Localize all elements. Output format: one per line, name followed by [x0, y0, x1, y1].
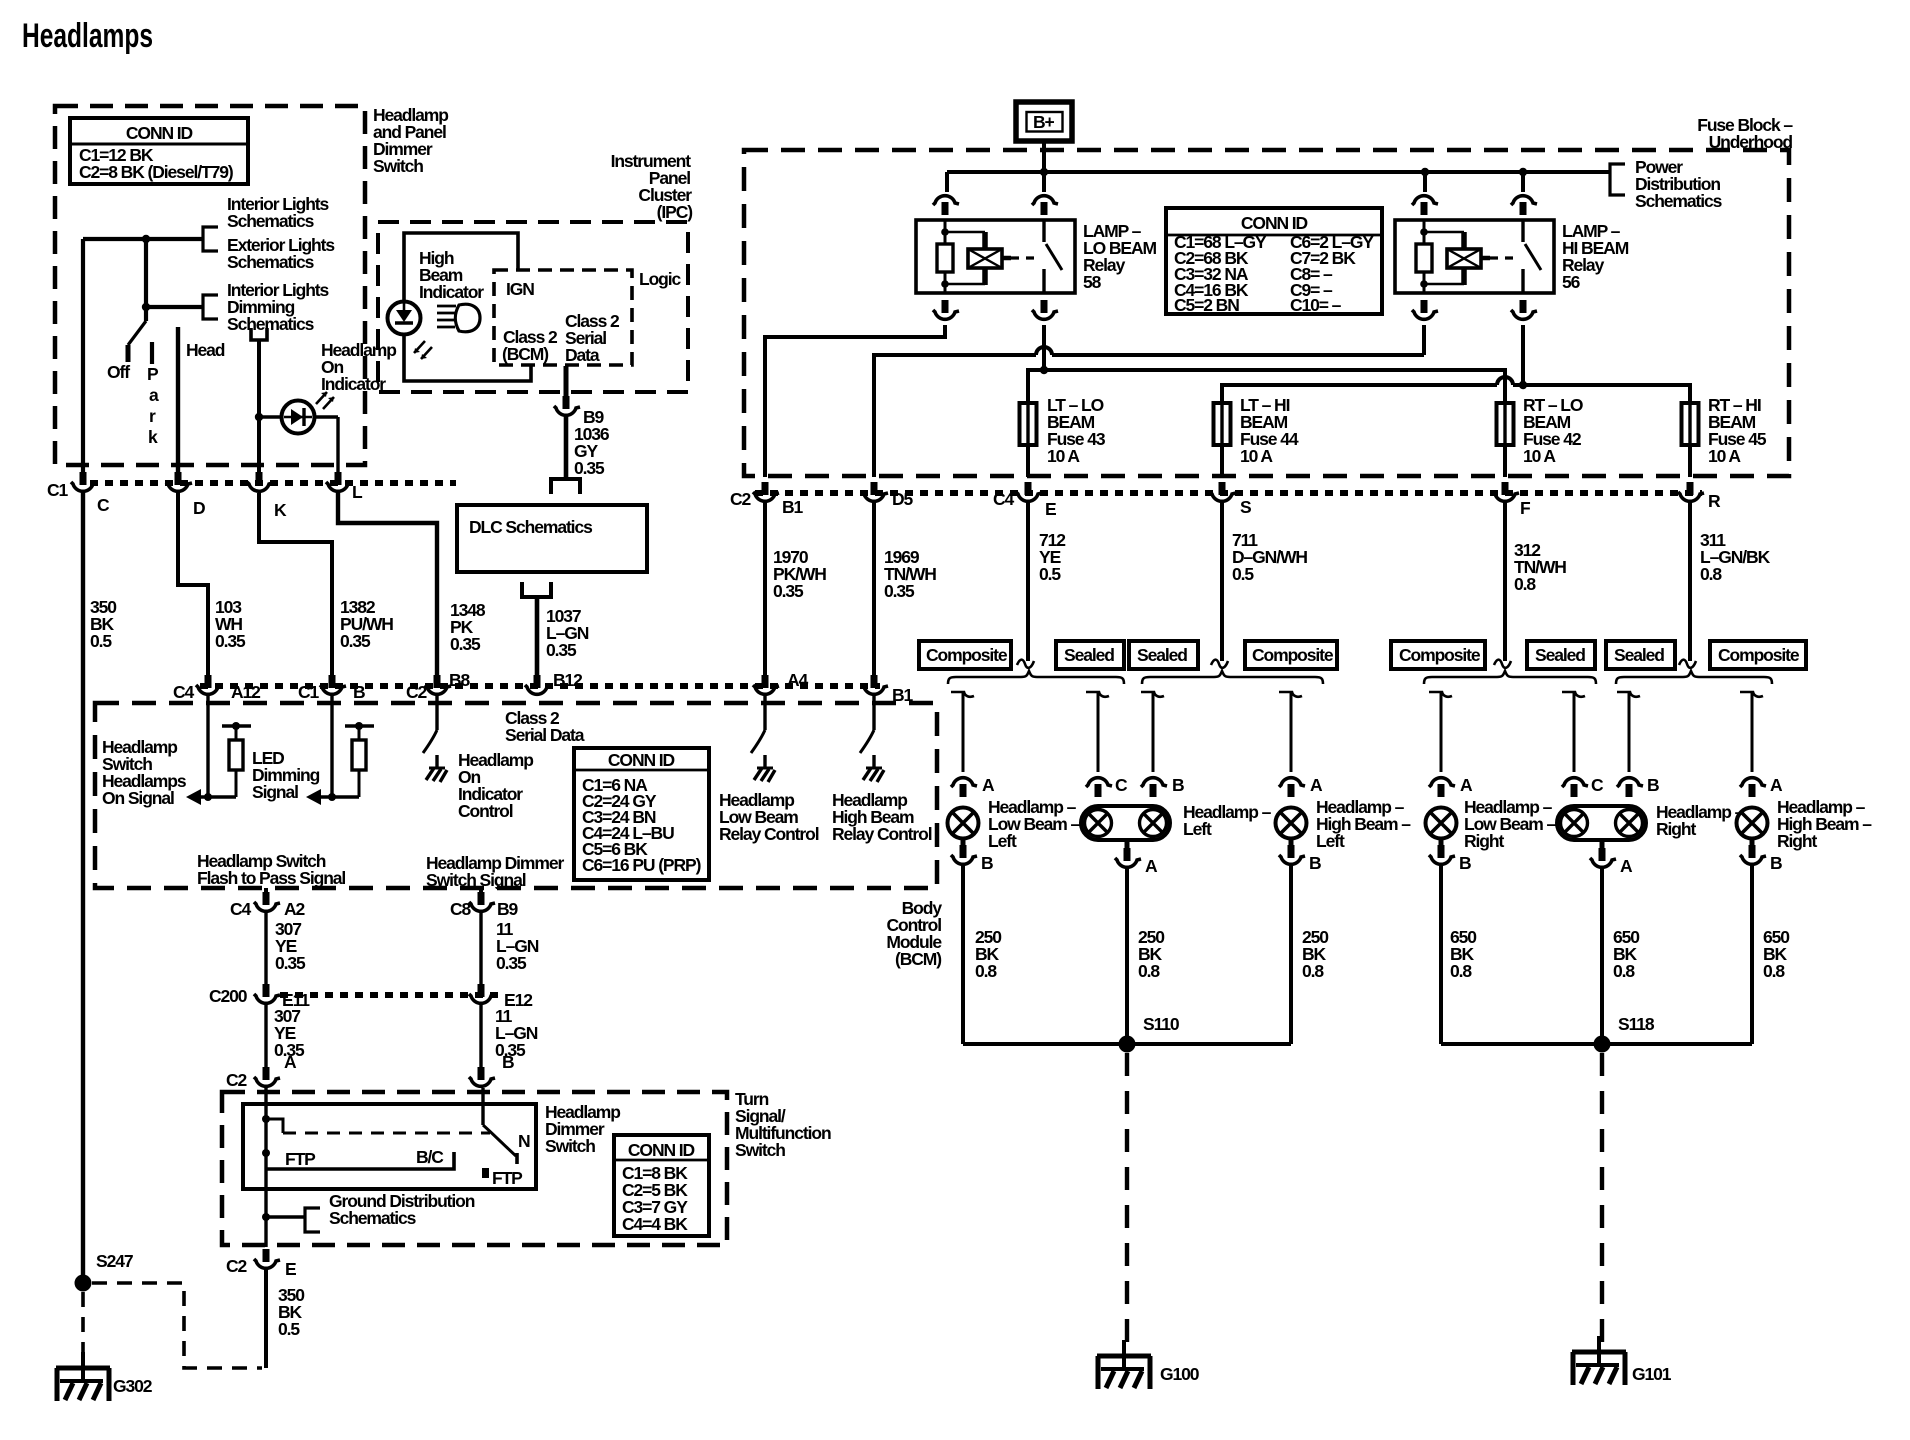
wire to dimming bracket: [146, 239, 202, 307]
node HI coil junction: [1421, 168, 1429, 176]
dotted connector row 3: [200, 683, 880, 689]
svg-text:E: E: [1045, 499, 1056, 519]
wire LED to L terminal: [314, 417, 338, 474]
svg-text:B/C: B/C: [416, 1147, 444, 1167]
dotted connector row C200: [280, 992, 500, 998]
wire 103 WH from D: [178, 493, 208, 681]
FTP contact: [482, 1168, 489, 1178]
svg-text:B9: B9: [497, 899, 519, 919]
reference bracket power distribution: [1610, 164, 1625, 195]
wire 250 BK right: [1289, 866, 1293, 1044]
svg-text:S: S: [1240, 497, 1251, 517]
svg-text:Switch: Switch: [735, 1140, 785, 1160]
svg-text:C2=8 BK (Diesel/T79): C2=8 BK (Diesel/T79): [79, 162, 233, 182]
connector caps into HI relay: [1412, 196, 1438, 215]
svg-text:10 A: 10 A: [1708, 446, 1741, 466]
fuse 43 LT-LO BEAM: [1020, 403, 1037, 445]
option box sealed L2: [1056, 641, 1124, 669]
dimmer switch blade: [483, 1125, 516, 1156]
wire switch feed horizontal: [83, 239, 202, 483]
label LED dimming signal: [252, 748, 320, 802]
dotted connector row C1: [90, 480, 456, 486]
FTP rail: [266, 1152, 454, 1169]
brace left high: [1142, 671, 1323, 684]
lamp feed wire A2 left: [1279, 692, 1302, 697]
svg-text:0.8: 0.8: [1613, 961, 1635, 981]
label headlamp dimmer switch signal: [426, 853, 564, 890]
N contact: [515, 1153, 519, 1164]
connector B (headlamp right): [1617, 778, 1643, 797]
lamp headlamp right (dual filament): [1557, 806, 1646, 840]
svg-text:Left: Left: [988, 831, 1017, 851]
svg-text:DLC Schematics: DLC Schematics: [469, 517, 593, 537]
fuse 42 RT-LO BEAM: [1497, 403, 1514, 445]
svg-text:C: C: [1115, 775, 1128, 795]
svg-text:A: A: [982, 775, 995, 795]
fork out of DLC: [522, 582, 551, 597]
svg-text:C4: C4: [230, 899, 252, 919]
label ground distribution schematics: [329, 1191, 475, 1228]
svg-text:C4: C4: [173, 682, 195, 702]
wire 250 BK left: [961, 866, 965, 1044]
park contact tick: [150, 342, 154, 364]
svg-text:S110: S110: [1143, 1014, 1180, 1034]
svg-text:Schematics: Schematics: [227, 314, 315, 334]
connector C2/A (turn signal): [254, 1067, 280, 1086]
svg-text:B: B: [981, 853, 993, 873]
svg-text:A4: A4: [787, 670, 809, 690]
svg-text:Indicator: Indicator: [419, 282, 484, 302]
svg-text:C4: C4: [993, 489, 1015, 509]
svg-text:C10= –: C10= –: [1290, 295, 1342, 315]
wire B9 stub from logic: [564, 366, 569, 402]
node B+ junction: [1040, 168, 1048, 176]
svg-text:(BCM): (BCM): [502, 344, 548, 364]
connector C1/B: [320, 675, 346, 694]
label body control module: [886, 898, 942, 969]
option box sealed R2: [1527, 641, 1595, 669]
svg-text:C5=2 BN: C5=2 BN: [1174, 295, 1239, 315]
svg-text:K: K: [274, 500, 287, 520]
wire 350 BK from C: [81, 493, 85, 1283]
connector B below low beam right: [1439, 839, 1444, 852]
svg-text:0.35: 0.35: [340, 631, 371, 651]
label turn signal multifunction switch: [735, 1089, 831, 1160]
svg-text:P: P: [147, 364, 159, 384]
svg-text:0.8: 0.8: [975, 961, 997, 981]
svg-text:B: B: [502, 1052, 514, 1072]
svg-text:FTP: FTP: [285, 1149, 316, 1169]
label interior lights dimming schematics: [227, 280, 330, 334]
svg-text:0.5: 0.5: [90, 631, 112, 651]
svg-text:Logic: Logic: [639, 269, 682, 289]
svg-text:S118: S118: [1618, 1014, 1655, 1034]
dashed ground wire G101: [1600, 1053, 1604, 1344]
svg-text:B: B: [1172, 775, 1184, 795]
brace right low: [1424, 671, 1596, 684]
svg-text:C2: C2: [226, 1070, 248, 1090]
dashed box fuse block underhood: [744, 150, 1789, 476]
connector B12: [525, 675, 551, 694]
fuse 45 RT-HI BEAM: [1682, 403, 1699, 445]
fork on indicator feed: [251, 328, 267, 340]
svg-text:B: B: [1309, 853, 1321, 873]
high beam indicator LED: [388, 302, 421, 335]
label instrument panel cluster: [611, 151, 693, 222]
connector B1 (BCM): [862, 675, 888, 694]
svg-text:Sealed: Sealed: [1137, 645, 1187, 665]
svg-text:IGN: IGN: [506, 279, 534, 299]
wire LO switch down: [1042, 325, 1046, 370]
crossover hop LO switch wire: [1036, 347, 1052, 355]
B+ power symbol: [1016, 102, 1072, 141]
connector A4: [753, 675, 779, 694]
svg-text:0.35: 0.35: [496, 953, 527, 973]
svg-text:CONN ID: CONN ID: [608, 750, 675, 770]
svg-text:Left: Left: [1316, 831, 1345, 851]
label headlamp on indicator control: [458, 750, 533, 821]
connector A (high beam right): [1740, 778, 1766, 797]
svg-text:Right: Right: [1656, 819, 1696, 839]
brace right high: [1616, 671, 1772, 684]
connector C (headlamp right): [1562, 778, 1588, 797]
arrow headlamp switch headlamps on signal: [200, 795, 236, 798]
dotted connector row 2: [755, 490, 1702, 496]
wire 11 L-GN: [479, 913, 482, 986]
label headlamp dimmer switch: [545, 1102, 620, 1156]
svg-text:0.8: 0.8: [1763, 961, 1785, 981]
high beam icon: [437, 304, 480, 332]
svg-text:Composite: Composite: [926, 645, 1008, 665]
option box sealed R3: [1606, 641, 1675, 669]
high beam feed wire: [1222, 385, 1690, 403]
svg-text:L: L: [352, 482, 363, 502]
svg-text:Serial Data: Serial Data: [505, 725, 585, 745]
label headlamp switch flash to pass signal: [197, 851, 345, 888]
reference bracket interior lights dimming: [203, 295, 218, 319]
relay LAMP-HI BEAM Relay 56: [1395, 220, 1554, 293]
label headlamp high beam relay control: [832, 790, 932, 844]
fork into DLC: [551, 479, 580, 494]
lamp headlamp low beam right: [1426, 808, 1457, 839]
svg-text:B: B: [1459, 853, 1471, 873]
connector C: [71, 472, 97, 491]
ground G302: [56, 1352, 110, 1401]
label 1348 PK 0.35: [450, 600, 486, 654]
wire 311 L-GN/BK: [1688, 503, 1692, 661]
connector caps into LO relay: [933, 196, 959, 215]
lamp headlamp high beam right: [1737, 808, 1768, 839]
svg-text:R: R: [1708, 491, 1721, 511]
ground G100: [1097, 1340, 1151, 1389]
wire LO coil to C2/B1: [765, 325, 945, 477]
svg-text:Off: Off: [107, 362, 130, 382]
svg-text:Switch Signal: Switch Signal: [426, 870, 526, 890]
power bus wire: [947, 170, 1610, 174]
svg-text:Headlamps: Headlamps: [22, 17, 153, 55]
connector A below stadium right: [1600, 841, 1605, 855]
svg-text:C1: C1: [298, 682, 320, 702]
svg-text:0.35: 0.35: [450, 634, 481, 654]
ground G101: [1572, 1336, 1626, 1385]
connector D: [166, 472, 192, 491]
connector F: [1493, 482, 1519, 501]
wire B+ to bus: [1042, 143, 1046, 172]
CONN ID table (fuse block): [1166, 208, 1382, 315]
svg-text:E: E: [285, 1259, 296, 1279]
resistor headlamps on signal: [222, 724, 251, 727]
svg-text:F: F: [1520, 498, 1531, 518]
svg-text:Head: Head: [186, 340, 225, 360]
option box composite L1: [919, 641, 1011, 669]
dashed ground wire G302: [81, 1292, 85, 1352]
option box composite L4: [1245, 641, 1337, 669]
svg-text:0.35: 0.35: [275, 953, 306, 973]
svg-text:Composite: Composite: [1252, 645, 1334, 665]
dashed box headlamp and panel dimmer switch: [55, 106, 365, 465]
label high beam indicator: [419, 248, 484, 302]
svg-text:CONN ID: CONN ID: [126, 123, 193, 143]
label interior lights schematics: [227, 194, 330, 231]
connector C (headlamp left): [1086, 778, 1112, 797]
fuse 44 LT-HI BEAM: [1214, 403, 1231, 445]
connector R: [1678, 482, 1704, 501]
connector A (high beam left): [1279, 778, 1305, 797]
wire 1037 L-GN: [535, 597, 540, 681]
label headlamp on indicator: [321, 340, 396, 394]
lamp feed wire A2 right: [1740, 692, 1763, 697]
svg-text:C2: C2: [226, 1256, 248, 1276]
wire A into dimmer: [264, 1088, 267, 1247]
svg-text:B8: B8: [449, 670, 471, 690]
svg-text:Underhood: Underhood: [1709, 132, 1793, 152]
svg-text:Schematics: Schematics: [227, 252, 315, 272]
svg-text:C200: C200: [209, 986, 248, 1006]
driver headlamp high beam relay control: [872, 696, 875, 730]
svg-text:B1: B1: [892, 685, 914, 705]
label lamp hi beam relay 56: [1562, 221, 1629, 292]
svg-text:C2: C2: [730, 489, 752, 509]
dashed ground wire G100: [1125, 1053, 1129, 1348]
connector C2/B8: [425, 675, 451, 694]
dashed box IPC: [378, 222, 688, 392]
svg-text:A: A: [1310, 775, 1323, 795]
svg-text:Schematics: Schematics: [1635, 191, 1723, 211]
svg-text:Schematics: Schematics: [329, 1208, 417, 1228]
svg-text:0.35: 0.35: [215, 631, 246, 651]
svg-text:A: A: [284, 1052, 297, 1072]
svg-text:Signal: Signal: [252, 782, 298, 802]
resistor LED dimming: [345, 724, 374, 727]
wire 250 BK center: [1125, 869, 1129, 1044]
lamp feed wire A right: [1429, 692, 1452, 697]
label class 2 serial data (B12): [505, 708, 585, 745]
svg-text:C2: C2: [406, 682, 428, 702]
mechanical link: [266, 1119, 283, 1133]
option box composite R1: [1391, 641, 1485, 669]
label class 2 (BCM): [502, 327, 558, 364]
svg-text:56: 56: [1562, 272, 1581, 292]
lamp feed wire C left: [1086, 692, 1109, 697]
svg-text:CONN ID: CONN ID: [1241, 213, 1308, 233]
svg-text:Data: Data: [565, 345, 600, 365]
svg-text:Schematics: Schematics: [227, 211, 315, 231]
svg-text:a: a: [149, 385, 159, 405]
connector C4/A12: [196, 675, 222, 694]
node HI switch junction: [1519, 168, 1527, 176]
connector cups below LO relay: [933, 300, 959, 319]
wire 1969 TN/WH: [872, 503, 876, 681]
wire 312 TN/WH: [1503, 503, 1507, 661]
LED rays: [414, 341, 432, 359]
lamp feed wire B left: [1141, 692, 1164, 697]
svg-text:Flash to Pass Signal: Flash to Pass Signal: [197, 868, 345, 888]
svg-text:D5: D5: [892, 489, 914, 509]
svg-text:10 A: 10 A: [1523, 446, 1556, 466]
relay LAMP-LO BEAM Relay 58: [916, 220, 1075, 293]
wire 1382 PU/WH from K: [259, 493, 332, 681]
off contact: [126, 345, 131, 362]
connector D5: [862, 482, 888, 501]
wire 711 D-GN/WH: [1220, 503, 1224, 661]
wire HI coil to D5: [874, 325, 1424, 477]
connector C4/A2: [264, 888, 268, 898]
splice S110: [963, 1042, 1291, 1046]
brace left low: [948, 671, 1124, 684]
svg-text:D: D: [193, 498, 205, 518]
svg-text:Left: Left: [1183, 819, 1212, 839]
svg-text:0.35: 0.35: [773, 581, 804, 601]
svg-text:Right: Right: [1464, 831, 1504, 851]
wire 1348 PK from L: [338, 493, 437, 681]
svg-text:C: C: [97, 495, 110, 515]
wire HI switch down: [1521, 325, 1525, 385]
connector cups below HI relay: [1412, 300, 1438, 319]
CONN ID table (turn signal switch): [614, 1135, 709, 1236]
svg-text:Switch: Switch: [373, 156, 423, 176]
connector B below: [961, 839, 966, 852]
svg-text:58: 58: [1083, 272, 1102, 292]
fuse output wires: [1028, 445, 1690, 477]
svg-text:Sealed: Sealed: [1064, 645, 1114, 665]
CONN ID table (BCM): [574, 748, 709, 880]
label Park (vertical): [147, 364, 159, 447]
label 350 BK 0.5: [90, 597, 117, 651]
svg-text:C6=16 PU (PRP): C6=16 PU (PRP): [582, 855, 701, 875]
connector C200/E11: [254, 984, 280, 1003]
svg-text:Sealed: Sealed: [1535, 645, 1585, 665]
headlamp on indicator LED: [282, 401, 315, 434]
switch blade (headlamp switch): [128, 321, 146, 345]
wire indicator feed: [257, 340, 261, 474]
svg-text:FTP: FTP: [492, 1168, 523, 1188]
lamp headlamp low beam left: [948, 808, 979, 839]
svg-text:C4=4 BK: C4=4 BK: [622, 1214, 688, 1234]
wire to LED: [259, 415, 282, 418]
wire B into dimmer: [481, 1088, 484, 1125]
svg-text:0.5: 0.5: [1039, 564, 1061, 584]
driver headlamp on indicator control: [435, 696, 438, 730]
wire 350 BK lower: [264, 1270, 268, 1368]
svg-text:A: A: [1145, 856, 1158, 876]
label 1036 GY 0.35: [574, 424, 610, 478]
connector C2/E: [254, 1249, 280, 1268]
svg-text:CONN ID: CONN ID: [628, 1140, 695, 1160]
bus drop wires: [947, 172, 1523, 192]
svg-text:B: B: [1647, 775, 1659, 795]
logic dashed box: [494, 270, 632, 365]
svg-text:A2: A2: [284, 899, 306, 919]
connector E12: [469, 984, 495, 1003]
connector B9 (IPC): [554, 396, 580, 415]
svg-text:Right: Right: [1777, 831, 1817, 851]
label headlamp switch headlamps on signal: [102, 737, 187, 808]
LED light rays: [316, 392, 334, 409]
connector L: [326, 472, 352, 491]
connector C2/B1: [753, 482, 779, 501]
svg-text:A: A: [1770, 775, 1783, 795]
wire 307 YE: [264, 913, 267, 986]
wire 1970 PK/WH: [763, 503, 767, 681]
svg-text:On Signal: On Signal: [102, 788, 174, 808]
svg-text:C: C: [1591, 775, 1604, 795]
svg-text:Sealed: Sealed: [1614, 645, 1664, 665]
svg-text:0.8: 0.8: [1514, 574, 1536, 594]
low beam feed wire: [1028, 370, 1505, 403]
svg-text:A12: A12: [231, 682, 261, 702]
svg-text:Switch: Switch: [545, 1136, 595, 1156]
svg-text:0.8: 0.8: [1302, 961, 1324, 981]
solid box headlamp dimmer switch: [243, 1104, 536, 1189]
svg-text:S247: S247: [96, 1251, 133, 1271]
headlamp switch common wire: [144, 307, 148, 321]
svg-text:G302: G302: [113, 1376, 153, 1396]
svg-text:10 A: 10 A: [1240, 446, 1273, 466]
svg-text:B12: B12: [553, 670, 583, 690]
dashed box BCM: [95, 703, 937, 888]
driver headlamp low beam relay control: [763, 696, 766, 730]
dashed box turn signal multifunction switch: [222, 1092, 727, 1245]
wire 650 BK left: [1439, 866, 1443, 1044]
svg-text:Composite: Composite: [1718, 645, 1800, 665]
svg-text:B+: B+: [1033, 112, 1055, 132]
connector A below stadium left: [1125, 841, 1130, 855]
label lamp lo beam relay 58: [1083, 221, 1157, 292]
svg-text:B1: B1: [782, 497, 804, 517]
svg-text:C8: C8: [450, 899, 472, 919]
connector C8/B9: [479, 888, 483, 898]
svg-text:C1: C1: [47, 480, 69, 500]
lamp headlamp left (dual filament): [1081, 806, 1170, 840]
svg-text:0.8: 0.8: [1700, 564, 1722, 584]
connector B (turn signal): [469, 1067, 495, 1086]
lamp feed wire A left: [951, 692, 974, 697]
node junction: [142, 235, 150, 243]
svg-text:(IPC): (IPC): [657, 202, 693, 222]
wire 11 L-GN lower: [479, 1005, 482, 1070]
wire 650 BK right: [1750, 866, 1754, 1044]
connector B below high beam right: [1750, 839, 1755, 852]
svg-text:0.5: 0.5: [1232, 564, 1254, 584]
svg-text:A: A: [1460, 775, 1473, 795]
option box sealed L3: [1129, 641, 1198, 669]
label headlamp low beam relay control: [719, 790, 819, 844]
option box composite R4: [1710, 641, 1806, 669]
wire 307 YE lower: [264, 1005, 267, 1070]
label power distribution schematics: [1635, 157, 1723, 211]
svg-text:0.8: 0.8: [1138, 961, 1160, 981]
lamp feed wire C right: [1562, 692, 1585, 697]
